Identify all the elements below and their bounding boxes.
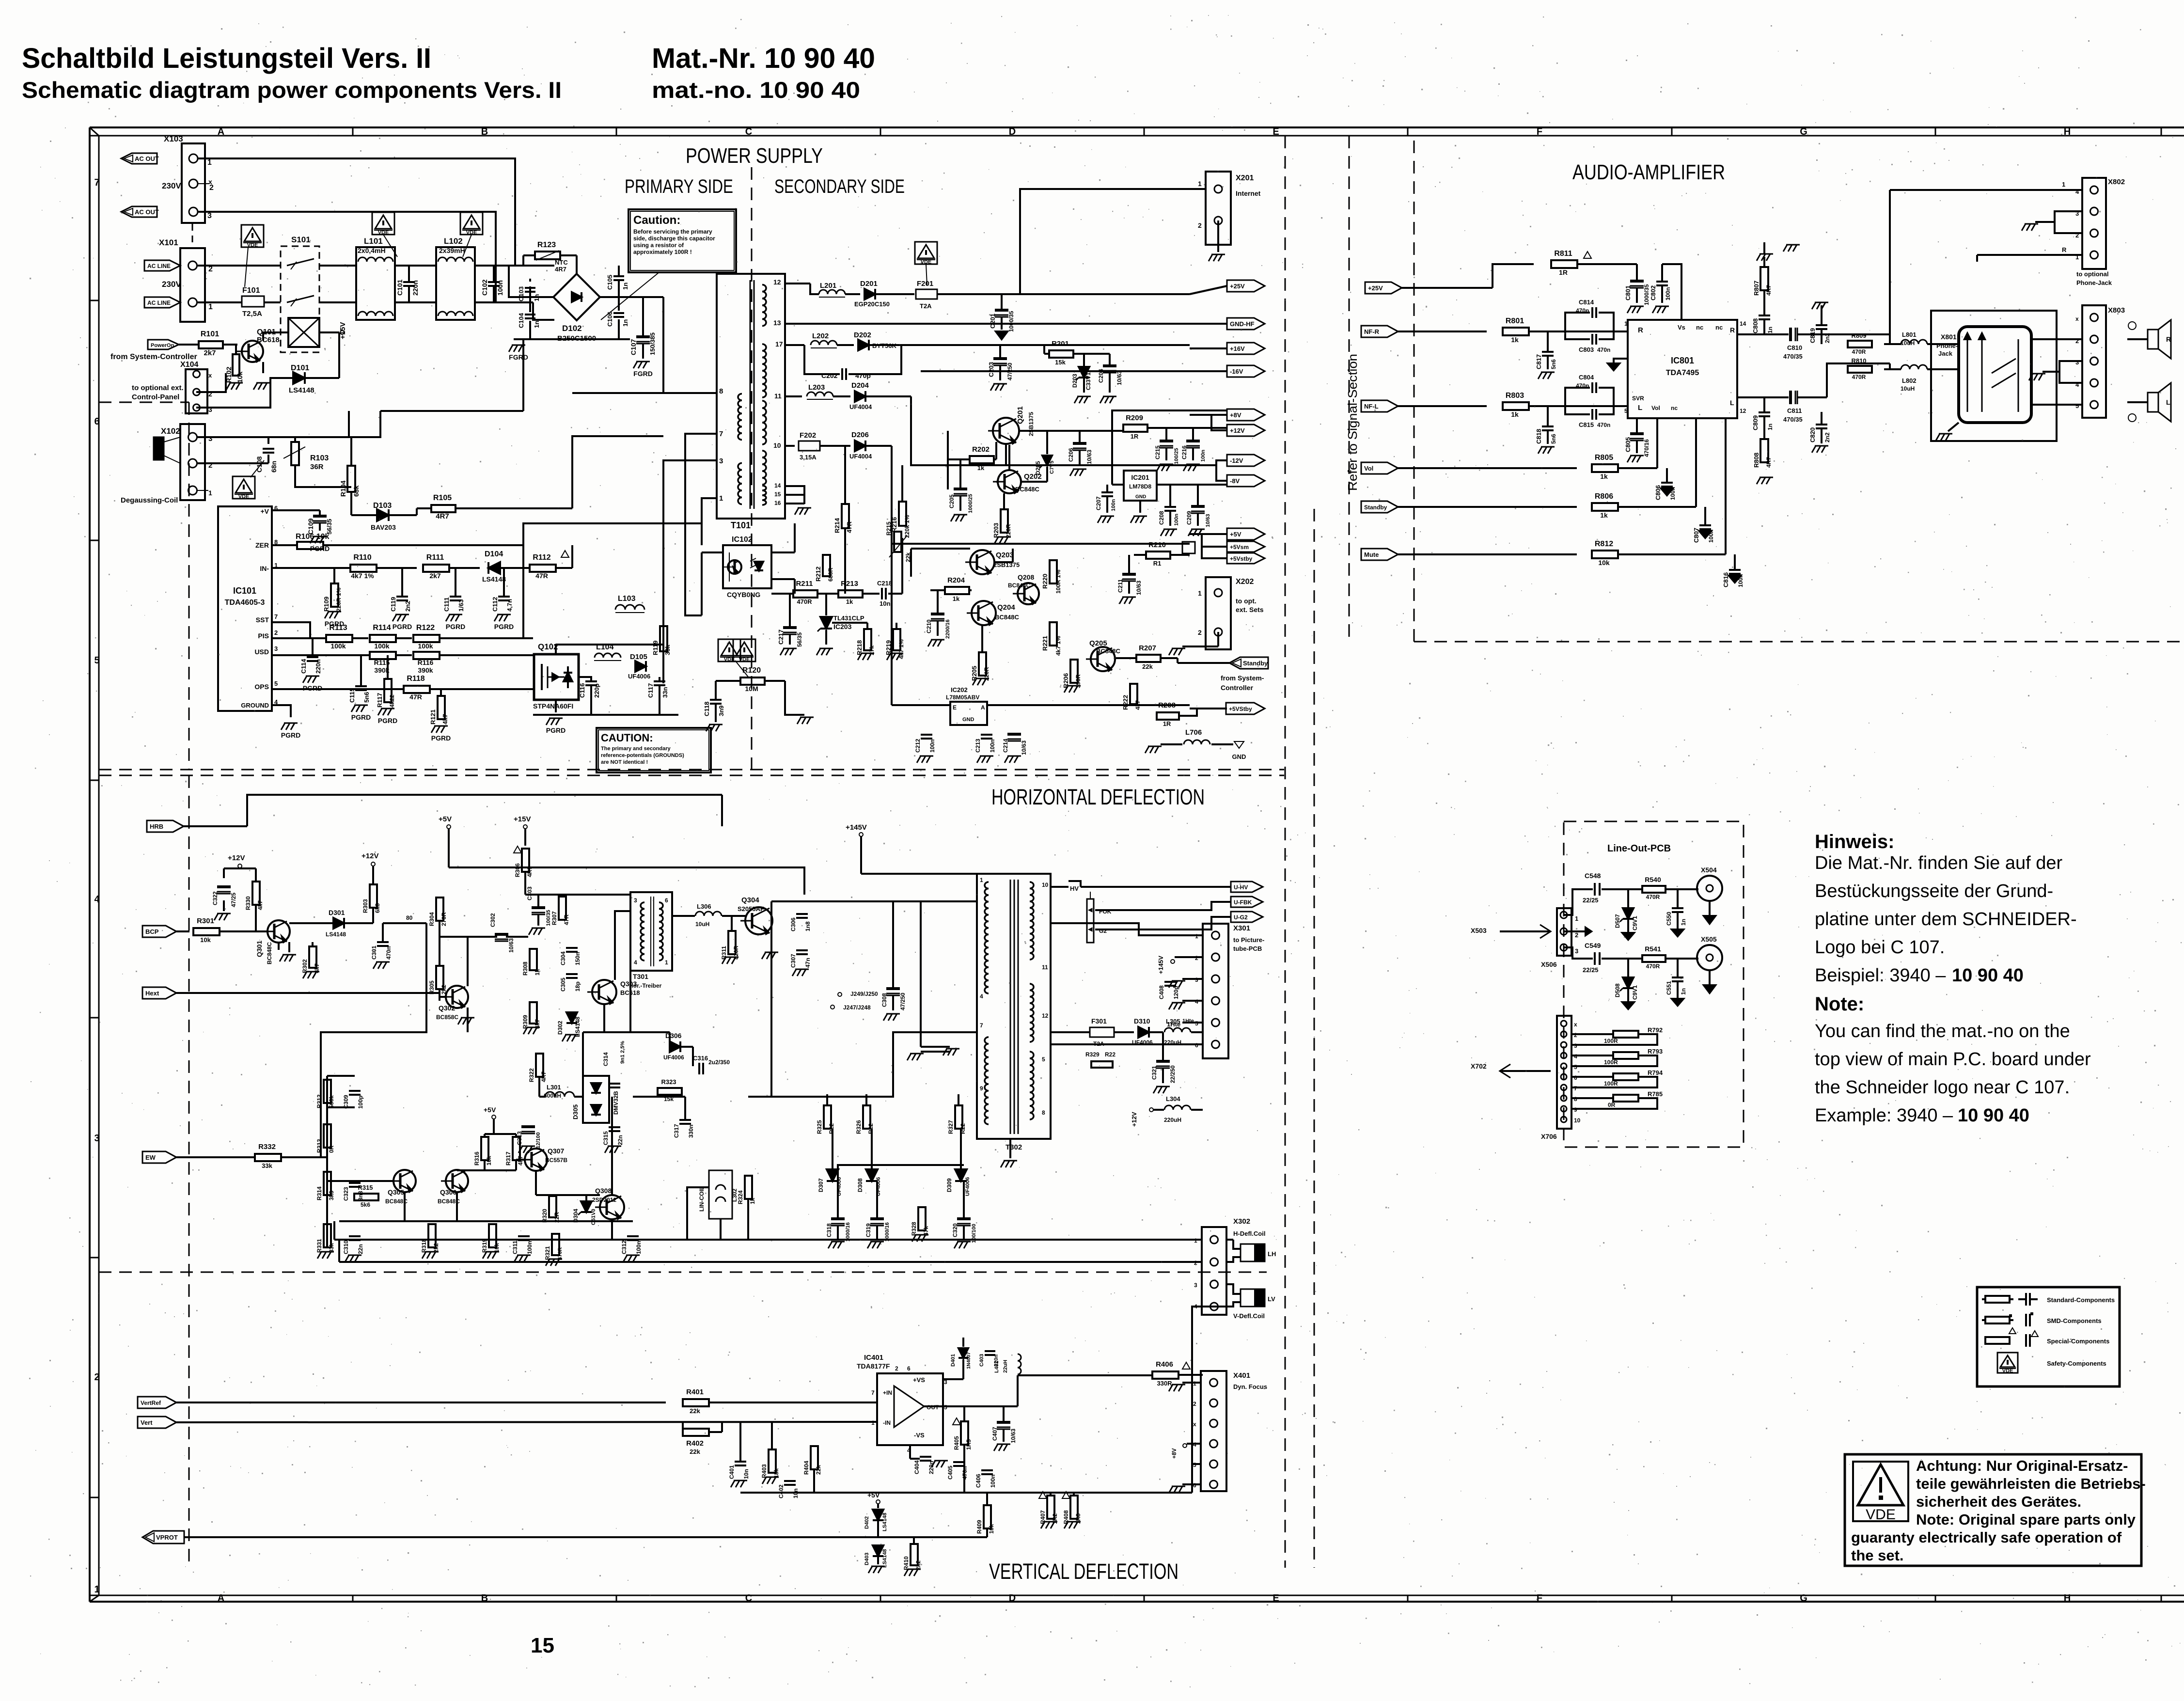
svg-text:100n: 100n [1665, 287, 1671, 300]
capacitor C301 470n [371, 923, 392, 969]
svg-text:SECONDARY SIDE: SECONDARY SIDE [774, 176, 905, 197]
svg-text:270R: 270R [440, 912, 447, 926]
svg-text:DMV32B: DMV32B [613, 1091, 619, 1115]
svg-text:470R: 470R [1852, 374, 1866, 380]
wire T301 in [562, 895, 630, 980]
svg-text:L306: L306 [697, 903, 711, 910]
capacitor C212 100n [914, 735, 936, 763]
svg-text:D403: D403 [864, 1553, 870, 1565]
svg-text:1R: 1R [1131, 433, 1139, 440]
svg-text:R211: R211 [796, 580, 813, 588]
capacitor C211 10/63 [1117, 555, 1142, 604]
svg-text:L706: L706 [1185, 728, 1202, 737]
svg-text:4: 4 [980, 993, 983, 1000]
capacitor C402 10n [778, 1481, 799, 1498]
svg-text:AC LINE: AC LINE [147, 299, 171, 306]
svg-text:C313: C313 [516, 1131, 523, 1145]
svg-text:C201: C201 [989, 314, 996, 329]
connector X506 [1541, 908, 1578, 968]
svg-text:IC203: IC203 [833, 623, 852, 630]
svg-text:UF4004: UF4004 [849, 403, 872, 410]
svg-text:sicherheit des Gerätes.: sicherheit des Gerätes. [1916, 1493, 2081, 1510]
svg-text:the Schneider logo near C 107.: the Schneider logo near C 107. [1815, 1077, 2070, 1098]
capacitor C111 1/63 [443, 568, 465, 630]
capacitor C810 470/35 [1737, 328, 1890, 360]
speaker L [2127, 383, 2171, 422]
wire rail 13 GND-HF [785, 323, 1190, 325]
svg-text:R213: R213 [841, 580, 858, 588]
svg-text:NTC: NTC [555, 259, 568, 266]
svg-text:C205: C205 [948, 494, 955, 508]
svg-text:C307: C307 [790, 954, 797, 968]
svg-text:3k3: 3k3 [328, 1191, 335, 1200]
svg-text:4,7n: 4,7n [506, 599, 513, 612]
wire X103 pin1 to switch node [198, 158, 515, 266]
capacitor C317 330n [673, 1120, 694, 1138]
svg-text:+12V: +12V [1230, 427, 1245, 434]
svg-text:C302: C302 [489, 913, 496, 927]
tag U-G2 [1173, 912, 1263, 929]
svg-text:600uH: 600uH [544, 1092, 561, 1099]
svg-text:A: A [218, 126, 224, 137]
svg-text:R540: R540 [1645, 876, 1661, 883]
svg-text:-16V: -16V [1230, 368, 1243, 375]
svg-text:BC858C: BC858C [436, 1014, 458, 1021]
capacitor C319 1000/16 [865, 1181, 890, 1248]
resistor R806 1k [1592, 418, 1696, 519]
wire L101-L102 bottom [395, 301, 436, 303]
capacitor C819 2n2 [1809, 302, 1831, 344]
resistor R308 1k [522, 949, 541, 976]
tag +25V [1190, 280, 1265, 294]
svg-text:1000/35: 1000/35 [1008, 311, 1015, 332]
svg-text:OPS: OPS [254, 683, 269, 691]
svg-text:Phone-Jack: Phone-Jack [2076, 279, 2112, 286]
svg-text:C105: C105 [606, 275, 613, 290]
svg-text:150/385: 150/385 [649, 332, 656, 355]
svg-text:56/35: 56/35 [796, 632, 803, 647]
svg-text:PGRD: PGRD [378, 717, 397, 724]
svg-text:100n: 100n [1200, 450, 1206, 462]
svg-text:C820: C820 [1809, 427, 1816, 442]
svg-text:1/63: 1/63 [457, 599, 465, 612]
svg-text:L203: L203 [808, 383, 825, 392]
IC401 TDA8177F box [857, 1354, 947, 1454]
svg-text:C303: C303 [526, 886, 533, 900]
safety symbol F101 [241, 225, 264, 287]
svg-text:X302: X302 [1233, 1217, 1250, 1226]
svg-text:L202: L202 [812, 332, 829, 340]
svg-text:10/63: 10/63 [508, 938, 515, 953]
svg-text:C51V0: C51V0 [591, 1209, 597, 1225]
wire X201 pin2 gnd [1209, 220, 1225, 261]
connector X301 [1195, 924, 1264, 1058]
svg-text:10: 10 [1042, 882, 1049, 888]
svg-text:R329: R329 [1085, 1051, 1100, 1058]
svg-text:C316: C316 [693, 1055, 708, 1062]
svg-text:C301: C301 [371, 945, 377, 960]
bridge rectifier D102 B250C1500 [553, 274, 600, 343]
svg-text:H-Defl.Coil: H-Defl.Coil [1233, 1230, 1265, 1237]
resistor R808 4R7 [1753, 439, 1773, 484]
svg-text:680R: 680R [827, 567, 834, 582]
svg-text:GND: GND [1135, 494, 1146, 500]
resistor R805 1k [1592, 418, 1657, 480]
capacitor C309 100p [343, 1091, 364, 1109]
svg-text:15: 15 [774, 491, 781, 498]
ground X301 pin4 [1169, 1001, 1203, 1009]
tag HRB [147, 795, 722, 832]
resistor R220 100R 1% [1041, 560, 1062, 594]
svg-text:R805: R805 [1595, 454, 1613, 462]
svg-text:1n: 1n [1680, 988, 1687, 995]
svg-text:SVR: SVR [1632, 395, 1644, 402]
resistor R203 220R [992, 493, 1012, 544]
svg-text:x: x [1193, 1421, 1196, 1428]
ground IC801 left [1608, 359, 1628, 370]
svg-text:C806: C806 [1654, 485, 1662, 500]
svg-text:Beispiel: 3940 –: Beispiel: 3940 – [1815, 965, 1946, 986]
resistor R810 470R [1848, 357, 1872, 380]
resistor R321 470R [544, 1234, 563, 1266]
svg-text:C107: C107 [629, 339, 637, 355]
wire D101 to +15V node [338, 332, 340, 378]
tag AC LINE 2 [144, 297, 180, 308]
svg-text:C407: C407 [991, 1427, 998, 1441]
svg-text:R110: R110 [353, 553, 371, 562]
wire drain to Q102 [556, 645, 663, 683]
svg-text:2: 2 [1193, 1401, 1196, 1407]
svg-text:15k: 15k [1055, 359, 1066, 366]
svg-text:220n: 220n [314, 659, 322, 674]
svg-text:VPROT: VPROT [156, 1534, 178, 1541]
diode D310 UF4006 [1132, 1017, 1163, 1046]
svg-text:Q308: Q308 [595, 1187, 612, 1195]
svg-text:x: x [1574, 1021, 1577, 1028]
svg-text:C404: C404 [913, 1460, 920, 1474]
wire relay to +15V [319, 322, 347, 339]
svg-text:LS4148: LS4148 [482, 575, 506, 583]
svg-text:1: 1 [1195, 933, 1198, 940]
capacitor C406 100n [975, 1470, 996, 1488]
svg-text:STP4NA60FI: STP4NA60FI [533, 702, 573, 710]
resistor R313 0R [316, 1124, 335, 1153]
svg-text:C549: C549 [1585, 942, 1601, 949]
svg-text:10/63: 10/63 [1021, 740, 1027, 755]
svg-text:1: 1 [208, 303, 213, 311]
wire audio out L [1884, 363, 1958, 369]
svg-text:C207: C207 [1095, 496, 1102, 510]
diode D308 UF4006 [857, 1129, 881, 1196]
svg-text:C805: C805 [1624, 437, 1632, 452]
svg-text:2: 2 [274, 629, 278, 636]
svg-text:are NOT identical !: are NOT identical ! [601, 759, 648, 765]
svg-text:Vol: Vol [1364, 465, 1373, 472]
svg-text:BC848C: BC848C [995, 614, 1019, 621]
dashed primary input protection boundary [99, 402, 189, 770]
svg-text:TL431CLP: TL431CLP [833, 614, 864, 622]
svg-text:R319: R319 [481, 1239, 488, 1253]
svg-text:B: B [481, 126, 488, 137]
svg-text:IN-: IN- [260, 565, 269, 572]
svg-text:L301: L301 [547, 1084, 561, 1091]
svg-text:470R: 470R [1852, 348, 1866, 355]
transistor Q204 BC848C [967, 601, 1019, 625]
svg-text:100k: 100k [374, 642, 389, 650]
svg-text:2x0,4mH: 2x0,4mH [358, 247, 386, 254]
svg-text:C117: C117 [647, 683, 654, 698]
svg-text:47R: 47R [846, 521, 853, 533]
svg-text:D201: D201 [860, 280, 878, 288]
svg-text:47R: 47R [535, 572, 548, 580]
capacitor C205 1000/25 [948, 459, 974, 521]
svg-text:C548: C548 [1585, 872, 1601, 880]
inductor L304 220uH [1131, 1095, 1203, 1127]
svg-text:1R2: 1R2 [1052, 1513, 1058, 1524]
wire Q305 Q306 emitters [339, 1192, 633, 1221]
resistor R811 1R [1551, 250, 1637, 276]
wire T302 bottom gnd [907, 1052, 1017, 1167]
capacitor C102 100n [481, 266, 504, 302]
tag AC LINE 1 [144, 260, 180, 271]
svg-text:D205: D205 [1035, 461, 1041, 475]
svg-text:220uH: 220uH [1164, 1039, 1181, 1046]
svg-text:R541: R541 [1645, 945, 1661, 953]
svg-text:470R: 470R [1646, 963, 1660, 970]
svg-text:R1: R1 [1153, 560, 1162, 567]
svg-text:3: 3 [207, 212, 212, 220]
svg-text:C803: C803 [1579, 346, 1594, 353]
svg-text:+8V: +8V [1230, 411, 1241, 419]
capacitor C101 220n [396, 266, 419, 302]
V yoke LV [1226, 1284, 1275, 1307]
resistor R322 4R7 [528, 1054, 547, 1082]
document title (German) [22, 43, 431, 74]
svg-text:R318: R318 [421, 1239, 427, 1253]
svg-text:220uH: 220uH [1164, 1117, 1181, 1123]
svg-text:100R: 100R [1604, 1038, 1618, 1044]
wire C308 drop [921, 901, 959, 1055]
capacitor C303 100/35 [525, 886, 562, 935]
svg-text:7: 7 [274, 613, 278, 620]
wire Q201 base [1005, 444, 1007, 465]
svg-text:+12V: +12V [1131, 1112, 1138, 1127]
svg-text:1: 1 [719, 494, 723, 503]
MOSFET Q102 STP4NA60FI [475, 642, 579, 734]
capacitor C105 1n [606, 275, 629, 290]
capacitor C315 22n [602, 1127, 624, 1153]
power +145V [846, 823, 867, 874]
svg-text:80: 80 [406, 914, 413, 921]
svg-text:S2055AF: S2055AF [738, 905, 764, 913]
resistor R330 4k7 [245, 882, 264, 910]
svg-text:Note: Original spare parts onl: Note: Original spare parts only [1916, 1511, 2136, 1528]
svg-text:reference-potentials (GROUNDS): reference-potentials (GROUNDS) [601, 753, 684, 758]
svg-text:VDE: VDE [2002, 1368, 2013, 1374]
svg-text:+VS: +VS [913, 1376, 925, 1384]
capacitor C321 22/250 [1151, 1032, 1176, 1093]
svg-text:C808: C808 [1752, 318, 1759, 333]
inductor L301 600uH [539, 1077, 583, 1099]
svg-text:10k: 10k [1598, 559, 1610, 567]
tag +5VStby [1190, 703, 1265, 714]
title PRIMARY SIDE [625, 176, 733, 197]
svg-text:Standard-Components: Standard-Components [2047, 1296, 2115, 1304]
svg-text:R327: R327 [947, 1120, 954, 1134]
wire EW supply bus [321, 923, 426, 1157]
wire X202 pin2 gnd [1169, 632, 1218, 655]
svg-text:5k6: 5k6 [361, 1201, 370, 1208]
svg-text:Q203: Q203 [996, 551, 1014, 559]
svg-text:L: L [2166, 398, 2170, 406]
svg-text:13: 13 [773, 319, 781, 327]
resistor R320 22R [541, 1196, 560, 1223]
svg-text:C217: C217 [777, 630, 785, 645]
resistor R202 1k [948, 431, 996, 489]
svg-text:2: 2 [1198, 629, 1202, 636]
resistor R541 470R [1642, 945, 1698, 970]
wire snubber [533, 677, 678, 715]
svg-text:47n: 47n [804, 958, 811, 968]
svg-text:F201: F201 [917, 280, 933, 288]
capacitor C310 22n [343, 1236, 364, 1262]
svg-text:10/63: 10/63 [1086, 450, 1093, 464]
svg-text:D402: D402 [864, 1516, 870, 1529]
svg-text:16: 16 [774, 500, 781, 506]
relay coil box [288, 318, 319, 347]
svg-text:L: L [1730, 399, 1734, 407]
svg-text:150n: 150n [574, 952, 581, 965]
resistor R101 2k7 [179, 330, 237, 357]
capacitor C811 470/35 [1737, 363, 1890, 423]
svg-text:UF4006: UF4006 [663, 1054, 684, 1061]
svg-text:2SD2012: 2SD2012 [592, 1197, 616, 1203]
svg-text:R: R [1730, 326, 1735, 334]
capacitor C206 10/63 [1068, 431, 1093, 476]
title POWER SUPPLY [686, 144, 823, 168]
svg-text:C115: C115 [348, 688, 356, 703]
connector X802 [2075, 178, 2125, 286]
svg-text:C306: C306 [790, 917, 797, 931]
svg-text:PGRD: PGRD [446, 623, 465, 630]
svg-text:10/63: 10/63 [1010, 1429, 1017, 1443]
svg-text:C9V1: C9V1 [1632, 916, 1638, 930]
svg-text:R402: R402 [686, 1439, 704, 1448]
diode D402 LS4148 [864, 1510, 888, 1537]
svg-text:Q301: Q301 [255, 941, 263, 957]
capacitor C209 10/63 [1158, 485, 1211, 536]
svg-text:C118: C118 [703, 702, 710, 716]
svg-text:D203: D203 [1071, 374, 1078, 388]
svg-text:2n2: 2n2 [404, 601, 411, 612]
ground FGRD bridge [509, 345, 528, 361]
tag +5V [1190, 528, 1265, 540]
safety symbol F201 [915, 242, 937, 285]
svg-text:R803: R803 [1506, 392, 1524, 400]
svg-text:L201: L201 [820, 282, 836, 290]
svg-text:Schaltbild Leistungsteil Vers.: Schaltbild Leistungsteil Vers. II [22, 43, 431, 74]
svg-text:4R7: 4R7 [1765, 457, 1772, 468]
shunt regulator IC203 TL431CLP [817, 594, 867, 655]
caution box grounds [597, 728, 711, 772]
svg-text:+5V: +5V [867, 1491, 880, 1499]
safety symbol L101 [372, 212, 397, 257]
capacitor C805 470/16 [1624, 418, 1650, 462]
svg-text:IC202: IC202 [951, 686, 968, 693]
svg-text:TDA4605-3: TDA4605-3 [225, 598, 265, 607]
svg-text:Die Mat.-Nr. finden Sie auf de: Die Mat.-Nr. finden Sie auf der [1815, 853, 2062, 873]
svg-text:C114: C114 [300, 659, 307, 674]
svg-text:D: D [1009, 1593, 1016, 1604]
svg-text:U-HV: U-HV [1234, 884, 1248, 891]
diode D309 UF4006 [946, 1129, 971, 1196]
svg-text:10/63: 10/63 [1205, 514, 1211, 527]
svg-text:R315: R315 [358, 1184, 373, 1191]
tag +16V [1190, 343, 1265, 354]
svg-text:R220: R220 [1041, 574, 1049, 589]
arrow X702 [1471, 1062, 1551, 1078]
caution box primary [601, 209, 736, 320]
safety symbol degauss [233, 460, 264, 500]
resistor R307 47R [551, 895, 570, 925]
resistor R110 4k7 1% [272, 553, 417, 580]
svg-text:L802: L802 [1902, 377, 1917, 384]
svg-text:R111: R111 [426, 553, 444, 562]
label Degaussing-Coil [121, 496, 178, 504]
svg-text:R314: R314 [316, 1186, 323, 1200]
fuse F301 T2A [1051, 1017, 1134, 1068]
svg-text:3: 3 [1194, 1282, 1197, 1289]
svg-text:F301: F301 [1091, 1017, 1107, 1025]
svg-text:Q307: Q307 [548, 1147, 564, 1155]
linearity coil LIN-COIL [698, 1170, 738, 1219]
svg-text:11: 11 [774, 392, 782, 400]
ground IC101 pin4 [272, 705, 300, 739]
resistor R405 1R5 [953, 1406, 972, 1450]
svg-text:1n: 1n [533, 321, 540, 328]
wire defl top rail [449, 867, 804, 895]
svg-text:D308: D308 [857, 1178, 864, 1192]
capacitor C401 10n [728, 1422, 750, 1487]
transistor Q101 BC618 [237, 328, 280, 373]
svg-text:1: 1 [1198, 180, 1202, 188]
zener D205 C7V5 [1021, 431, 1055, 482]
wire 5V rail [892, 544, 1190, 705]
wire T101 pin3 drain [663, 460, 717, 683]
svg-text:100p: 100p [357, 1096, 364, 1109]
wire bridge to T101 [572, 297, 717, 393]
svg-text:R323: R323 [661, 1078, 676, 1086]
svg-text:R117: R117 [376, 693, 383, 708]
svg-text:R222: R222 [1122, 695, 1129, 710]
dashed divider power supply / horizontal deflection [99, 770, 1284, 775]
svg-text:E: E [1273, 126, 1279, 137]
svg-text:-12V: -12V [1230, 457, 1243, 464]
svg-text:LM78D8: LM78D8 [1129, 483, 1151, 490]
resistor R402 22k [683, 1422, 722, 1455]
capacitor C117 33n [647, 681, 669, 698]
svg-text:C322: C322 [212, 891, 219, 905]
svg-text:PIS: PIS [258, 632, 269, 640]
capacitor C106 1n [606, 312, 629, 327]
diode D204 UF4004 [849, 381, 1190, 465]
tag +12V [1211, 415, 1265, 436]
resistor R409 10k [976, 1493, 995, 1537]
resistor R408 1R8 [1062, 1492, 1082, 1528]
svg-text:AC LINE: AC LINE [147, 263, 171, 269]
capacitor C804 470n [1576, 374, 1596, 393]
dashed divider primary/secondary [751, 167, 753, 770]
